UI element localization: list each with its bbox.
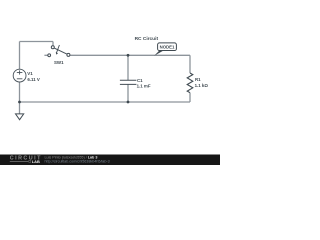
- svg-text:http://circuitlab.com/c/95638k: http://circuitlab.com/c/95638kb4h5/lab-3: [45, 159, 110, 163]
- wire V1 bottom to bottom rail: [19, 82, 21, 102]
- svg-text:RC Circuit: RC Circuit: [135, 36, 159, 42]
- wire capacitor bottom lead: [127, 84, 129, 102]
- wire top rail from switch to right corner: [70, 54, 190, 56]
- svg-text:1.1 kΩ: 1.1 kΩ: [195, 83, 209, 88]
- wire bottom rail: [20, 101, 191, 103]
- wire capacitor top lead: [127, 55, 129, 80]
- capacitor C1: [120, 80, 136, 84]
- switch SW1: [48, 45, 70, 57]
- wire right side down to resistor: [189, 55, 191, 73]
- svg-text:SW1: SW1: [54, 60, 64, 65]
- resistor R1: [187, 73, 193, 93]
- junction dot top of capacitor branch: [127, 54, 130, 57]
- wire ground stem: [19, 102, 21, 114]
- wire top-left horizontal rail: [20, 41, 54, 43]
- junction dot bottom of capacitor branch: [127, 101, 130, 104]
- svg-text:NODE1: NODE1: [160, 45, 175, 50]
- junction dot at ground node: [18, 101, 21, 104]
- svg-text:6.11 V: 6.11 V: [27, 77, 40, 82]
- voltage source V1: [13, 69, 26, 82]
- svg-text:C1: C1: [137, 78, 143, 83]
- svg-text:R1: R1: [195, 77, 201, 82]
- footer bar: [0, 155, 220, 166]
- wire switch open stub: [44, 54, 47, 56]
- svg-text:LAB: LAB: [32, 159, 40, 164]
- wire down into switch terminal: [52, 42, 54, 46]
- svg-text:V1: V1: [27, 71, 33, 76]
- node NODE1 flag: [154, 43, 176, 56]
- ground: [16, 114, 24, 120]
- wire from V1 top up to corner: [19, 42, 21, 70]
- wire resistor bottom to bottom rail: [189, 93, 191, 102]
- svg-text:1.1 mF: 1.1 mF: [137, 84, 151, 89]
- footer logo LAB: [10, 160, 28, 162]
